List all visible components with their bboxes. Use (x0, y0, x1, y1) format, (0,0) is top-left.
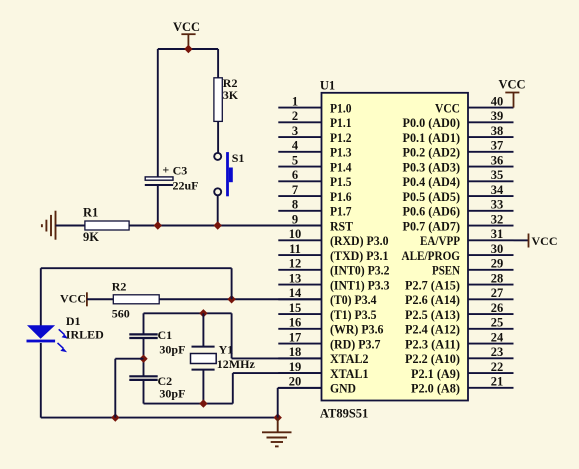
svg-text:U1: U1 (320, 78, 335, 92)
pin 31 EA/VPP (420, 227, 514, 248)
pin 25 P2.4 (A12) (405, 316, 514, 337)
svg-text:P2.5 (A13): P2.5 (A13) (405, 308, 460, 322)
svg-text:23: 23 (491, 345, 504, 359)
svg-text:7: 7 (292, 183, 298, 197)
svg-text:19: 19 (289, 360, 302, 374)
wire to C3 top (157, 49, 159, 177)
svg-text:33: 33 (491, 198, 504, 212)
svg-text:35: 35 (491, 168, 504, 182)
pin 3 P1.2 (278, 124, 351, 145)
resistor R2 (560) (113, 295, 159, 304)
pin 6 P1.5 (278, 168, 351, 189)
pin 22 P2.1 (A9) (411, 360, 514, 381)
junction C1/C2 midpoint (139, 355, 147, 363)
pin 23 P2.2 (A10) (405, 345, 514, 366)
pin 30 ALE/PROG (402, 242, 514, 263)
junction XTAL1 rail / Y1 bottom (199, 399, 207, 407)
pin 15 (T1) P3.5 (278, 301, 376, 322)
pin 7 P1.6 (278, 183, 351, 204)
pin 16 (WR) P3.6 (278, 316, 383, 337)
svg-text:36: 36 (491, 153, 504, 167)
wire to XTAL2 pin 18 (232, 357, 322, 359)
IC U1 AT89S51 body (322, 93, 469, 401)
svg-text:P2.4 (A12): P2.4 (A12) (405, 323, 460, 337)
svg-text:P2.7 (A15): P2.7 (A15) (405, 278, 460, 292)
pin 35 P0.4 (AD4) (403, 168, 514, 189)
svg-text:VCC: VCC (173, 20, 200, 34)
pin 14 (T0) P3.4 (278, 286, 377, 307)
wire GND pin 20 (278, 387, 322, 389)
wire to C1 top (143, 313, 145, 334)
wire LED cathode to ground rail (40, 343, 42, 418)
pin 40 VCC (435, 94, 514, 115)
svg-text:24: 24 (491, 330, 504, 344)
svg-text:PSEN: PSEN (432, 264, 460, 278)
svg-text:29: 29 (491, 257, 504, 271)
svg-text:22uF: 22uF (173, 178, 199, 192)
power symbol VCC bar (pin 31) (528, 234, 530, 248)
junction XTAL2 rail / Y1 top (199, 309, 207, 317)
svg-text:C3: C3 (173, 163, 188, 177)
svg-text:9K: 9K (83, 230, 99, 244)
svg-text:12: 12 (289, 257, 302, 271)
pin 5 P1.4 (278, 153, 352, 174)
svg-text:30: 30 (491, 242, 504, 256)
svg-text:R2: R2 (112, 280, 127, 294)
svg-text:S1: S1 (232, 151, 245, 165)
svg-text:30pF: 30pF (159, 343, 185, 357)
svg-text:P2.3 (A11): P2.3 (A11) (405, 337, 460, 351)
pin 19 XTAL1 (278, 360, 368, 381)
svg-text:(INT0) P3.2: (INT0) P3.2 (330, 264, 390, 278)
wire top rail to XTAL2 pin (231, 313, 233, 358)
svg-text:P1.7: P1.7 (330, 205, 352, 219)
svg-text:XTAL2: XTAL2 (330, 352, 369, 366)
pin 37 P0.2 (AD2) (403, 139, 514, 160)
svg-text:22: 22 (491, 360, 504, 374)
svg-text:P0.4 (AD4): P0.4 (AD4) (403, 175, 461, 189)
pin 32 P0.7 (AD7) (403, 212, 514, 233)
svg-text:(WR) P3.6: (WR) P3.6 (330, 323, 384, 337)
svg-text:P0.5 (AD5): P0.5 (AD5) (403, 190, 461, 204)
svg-text:20: 20 (289, 375, 302, 389)
wire R2(560) to pin 14 (159, 298, 321, 300)
svg-text:P1.2: P1.2 (330, 131, 352, 145)
svg-text:VCC: VCC (498, 78, 525, 92)
pin 27 P2.6 (A14) (405, 286, 514, 307)
svg-text:14: 14 (289, 286, 302, 300)
wire R2 bottom to S1 (217, 121, 219, 153)
svg-text:26: 26 (491, 301, 504, 315)
svg-text:8: 8 (292, 198, 298, 212)
svg-text:VCC: VCC (532, 234, 558, 248)
wire XTAL1 bottom rail (144, 403, 233, 405)
svg-text:GND: GND (330, 382, 356, 396)
svg-text:P1.0: P1.0 (330, 101, 352, 115)
svg-text:P1.6: P1.6 (330, 190, 352, 204)
svg-text:R1: R1 (83, 205, 98, 219)
wire vertical to pin14 net (231, 268, 233, 299)
wire midpoint to ground branch (115, 358, 143, 360)
wire C1 bottom to C2 top (143, 338, 145, 376)
pin 10 (RXD) P3.0 (278, 227, 388, 248)
pin 39 P0.0 (AD0) (403, 109, 514, 130)
capacitor C3 (polarized) (145, 177, 173, 185)
svg-text:38: 38 (491, 124, 504, 138)
pin 8 P1.7 (278, 198, 351, 219)
switch S1 (214, 152, 233, 196)
pin 13 (INT1) P3.3 (278, 271, 389, 292)
svg-text:EA/VPP: EA/VPP (420, 234, 460, 248)
wire VCC rail to R2 top (217, 49, 219, 78)
wire VCC rail horizontal (158, 48, 218, 50)
svg-text:6: 6 (292, 168, 298, 182)
resistor R2 (3K) (214, 78, 222, 122)
svg-text:P2.2 (A10): P2.2 (A10) (405, 352, 460, 366)
svg-text:21: 21 (491, 375, 504, 389)
wire Y1 bottom lead (202, 370, 204, 404)
svg-text:25: 25 (491, 316, 504, 330)
svg-text:32: 32 (491, 212, 504, 226)
svg-text:27: 27 (491, 286, 504, 300)
svg-text:(RXD) P3.0: (RXD) P3.0 (330, 234, 389, 248)
wire ground branch vertical (114, 359, 116, 418)
capacitor C1 (129, 334, 157, 338)
svg-text:16: 16 (289, 316, 302, 330)
svg-text:31: 31 (491, 227, 504, 241)
wire R1 to RST pin 9 (129, 225, 321, 227)
svg-text:40: 40 (491, 94, 504, 108)
wire pin 31 to VCC (514, 239, 529, 241)
svg-text:560: 560 (112, 307, 130, 321)
svg-text:39: 39 (491, 109, 504, 123)
svg-text:(RD) P3.7: (RD) P3.7 (330, 337, 381, 351)
svg-text:P0.7 (AD7): P0.7 (AD7) (403, 219, 461, 233)
pin 11 (TXD) P3.1 (278, 242, 388, 263)
ground (bottom earth) (262, 418, 292, 447)
wire to XTAL1 pin 19 (233, 372, 322, 374)
junction ground rail / GND pin (274, 413, 282, 421)
svg-text:ALE/PROG: ALE/PROG (402, 249, 461, 263)
svg-text:+: + (162, 163, 169, 177)
ground (left earth, rotated) (42, 211, 56, 240)
svg-text:P1.4: P1.4 (330, 160, 352, 174)
power symbol VCC (pin 40) (505, 93, 519, 108)
svg-text:5: 5 (292, 153, 298, 167)
svg-text:28: 28 (491, 271, 504, 285)
wire bottom rail to XTAL1 pin (232, 373, 234, 404)
pin 21 P2.0 (A8) (411, 375, 514, 396)
pin 26 P2.5 (A13) (405, 301, 514, 322)
svg-text:P0.0 (AD0): P0.0 (AD0) (403, 116, 461, 130)
svg-text:9: 9 (292, 212, 298, 226)
svg-text:P2.0 (A8): P2.0 (A8) (411, 382, 460, 396)
svg-text:XTAL1: XTAL1 (330, 367, 369, 381)
wire top rail LED loop (41, 267, 232, 269)
wire GND pin to ground rail (277, 388, 279, 418)
wire ground to R1 (56, 225, 85, 227)
pin 18 XTAL2 (278, 345, 368, 366)
svg-text:17: 17 (289, 330, 302, 344)
svg-text:4: 4 (292, 139, 299, 153)
svg-text:P0.3 (AD3): P0.3 (AD3) (403, 160, 461, 174)
pin 28 P2.7 (A15) (405, 271, 514, 292)
svg-text:2: 2 (292, 109, 298, 123)
svg-text:(T1) P3.5: (T1) P3.5 (330, 308, 377, 322)
svg-text:34: 34 (491, 183, 504, 197)
pin 2 P1.1 (278, 109, 351, 130)
pin 29 PSEN (432, 257, 514, 278)
svg-text:11: 11 (289, 242, 301, 256)
wire Y1 top lead (202, 313, 204, 346)
svg-text:C1: C1 (158, 328, 173, 342)
pin 20 GND (278, 375, 356, 396)
wire S1 bottom to RST net (217, 195, 219, 225)
pin 1 P1.0 (278, 94, 351, 115)
pin 36 P0.3 (AD3) (403, 153, 514, 174)
wire C2 bottom to ground rail (143, 380, 145, 404)
svg-text:(T0) P3.4: (T0) P3.4 (330, 293, 377, 307)
svg-text:3K: 3K (223, 88, 239, 102)
svg-text:AT89S51: AT89S51 (320, 407, 368, 421)
svg-text:37: 37 (491, 139, 504, 153)
capacitor C2 (129, 376, 157, 380)
svg-text:(TXD) P3.1: (TXD) P3.1 (330, 249, 389, 263)
pin 4 P1.3 (278, 139, 351, 160)
svg-text:13: 13 (289, 271, 302, 285)
svg-text:10: 10 (289, 227, 302, 241)
junction RST net / S1 (214, 221, 222, 229)
svg-text:1: 1 (292, 94, 298, 108)
svg-text:P2.1 (A9): P2.1 (A9) (411, 367, 460, 381)
junction VCC rail (184, 45, 192, 53)
svg-text:IRLED: IRLED (66, 328, 104, 342)
pin 17 (RD) P3.7 (278, 330, 380, 351)
pin 33 P0.6 (AD6) (403, 198, 514, 219)
svg-text:30pF: 30pF (159, 387, 185, 401)
wire VCC to R2(560) (87, 298, 113, 300)
wire C3 bottom to RST net (157, 185, 159, 226)
junction RST net / C3 (154, 221, 162, 229)
svg-text:3: 3 (292, 124, 298, 138)
resistor R1 (9K) (85, 221, 129, 230)
LED D1 (IRLED) (27, 325, 69, 352)
power symbol VCC (top) (181, 34, 195, 49)
svg-text:P0.6 (AD6): P0.6 (AD6) (403, 205, 461, 219)
svg-text:VCC: VCC (60, 292, 86, 306)
svg-text:P2.6 (A14): P2.6 (A14) (405, 293, 460, 307)
svg-text:P0.1 (AD1): P0.1 (AD1) (403, 131, 461, 145)
junction ground rail / C1C2 (111, 413, 119, 421)
pin 12 (INT0) P3.2 (278, 257, 389, 278)
svg-text:P1.5: P1.5 (330, 175, 352, 189)
pin 9 RST (278, 212, 353, 233)
svg-text:(INT1) P3.3: (INT1) P3.3 (330, 278, 390, 292)
svg-text:RST: RST (330, 219, 354, 233)
crystal Y1 (191, 347, 217, 370)
svg-text:D1: D1 (66, 314, 81, 328)
junction pin14 net / top rail (227, 295, 235, 303)
pin 24 P2.3 (A11) (405, 330, 514, 351)
wire LED anode (40, 268, 42, 325)
pin 38 P0.1 (AD1) (403, 124, 514, 145)
pin 34 P0.5 (AD5) (403, 183, 514, 204)
svg-text:18: 18 (289, 345, 302, 359)
svg-text:P1.3: P1.3 (330, 146, 352, 160)
wire bottom ground rail (41, 417, 278, 419)
svg-text:VCC: VCC (435, 101, 460, 115)
svg-text:P1.1: P1.1 (330, 116, 352, 130)
svg-text:P0.2 (AD2): P0.2 (AD2) (403, 146, 461, 160)
power symbol VCC bar (560 branch) (86, 292, 88, 306)
wire XTAL2 top rail (144, 312, 232, 314)
svg-text:15: 15 (289, 301, 302, 315)
